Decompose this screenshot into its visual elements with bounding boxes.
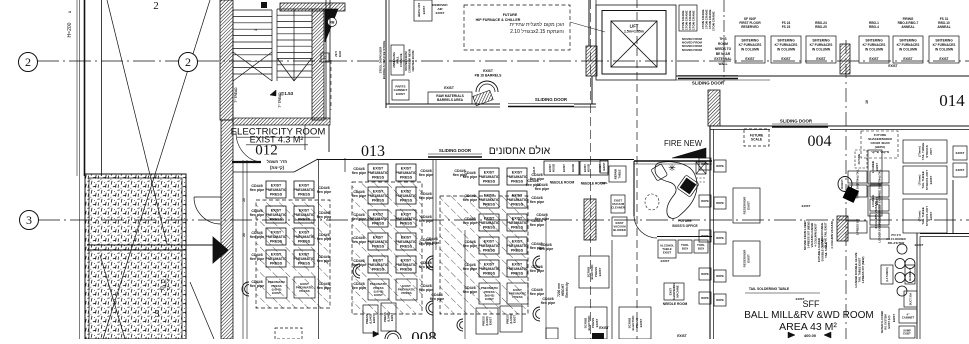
svg-text:ROPE: ROPE [716,201,724,205]
svg-text:004: 004 [808,133,832,150]
svg-text:flex pipe: flex pipe [530,177,545,181]
svg-text:SLIDING DOOR: SLIDING DOOR [439,148,472,153]
svg-text:EXIST: EXIST [373,189,384,193]
svg-text:(L0 TANKS): (L0 TANKS) [885,267,889,281]
svg-text:EXIST: EXIST [299,183,310,187]
svg-text:EXIST: EXIST [484,170,495,174]
svg-text:EXIST: EXIST [271,208,282,212]
svg-text:PNEUMATIC: PNEUMATIC [395,263,417,267]
svg-text:flex pipe: flex pipe [352,217,367,221]
svg-text:1TON CRANE: 1TON CRANE [692,11,696,30]
svg-text:PRESS: PRESS [483,202,496,206]
svg-text:PRESS: PRESS [511,202,524,206]
svg-text:WALL: WALL [395,56,399,64]
svg-text:flex pipe: flex pipe [250,188,265,192]
svg-text:ROPE: ROPE [716,274,724,278]
svg-text:flex pipe: flex pipe [317,286,332,290]
svg-text:EXIST: EXIST [396,92,405,96]
svg-text:EXIST: EXIST [892,314,896,322]
svg-text:EXIST: EXIST [373,258,384,262]
svg-text:IN COLUMN: IN COLUMN [865,48,884,52]
svg-text:PNEUMATIC: PNEUMATIC [478,221,500,225]
svg-text:EXIST (L0): EXIST (L0) [887,315,891,328]
svg-text:ROBOT: ROBOT [840,179,844,189]
svg-text:ANNEALING: ANNEALING [392,52,396,68]
svg-text:אולם אחסונים: אולם אחסונים [489,145,551,157]
svg-text:SUCT 30A: SUCT 30A [908,293,912,306]
svg-text:PNEUMATIC: PNEUMATIC [265,257,287,261]
svg-text:EXIST: EXIST [869,57,878,61]
svg-text:WATER FLOODED: WATER FLOODED [880,311,884,334]
svg-text:PRESS: PRESS [511,248,524,252]
svg-text:EXIST: EXIST [271,183,282,187]
svg-text:RBO-25: RBO-25 [815,25,827,29]
svg-text:200T: 200T [929,148,933,155]
svg-text:EXIST: EXIST [599,326,609,330]
svg-text:BARRELS AREA: BARRELS AREA [437,98,464,102]
svg-text:PRESS: PRESS [400,198,413,202]
svg-text:PNEUMATIC: PNEUMATIC [478,244,500,248]
svg-text:LIFT: LIFT [630,24,639,29]
svg-text:NEEDLE ROOM: NEEDLE ROOM [581,182,606,186]
svg-text:ANNEAL: ANNEAL [937,25,950,29]
svg-text:CENTER ROOM: CENTER ROOM [411,50,415,72]
svg-text:PRESS: PRESS [298,239,311,243]
svg-text:PRESS: PRESS [400,221,413,225]
svg-text:✳: ✳ [668,163,676,173]
svg-text:NEEDS TO: NEEDS TO [715,47,732,51]
svg-text:PNEUMATIC: PNEUMATIC [395,240,417,244]
svg-text:2: 2 [25,55,31,69]
svg-text:BOX: BOX [682,246,688,250]
svg-text:BALL MILL&RV &WD ROOM: BALL MILL&RV &WD ROOM [744,310,873,321]
svg-text:BLOWER: BLOWER [613,228,625,232]
svg-text:HOOD: HOOD [587,164,591,172]
svg-text:EXIST: EXIST [929,175,933,184]
svg-text:flex pipe: flex pipe [352,286,367,290]
svg-text:EXIST: EXIST [401,189,412,193]
svg-text:7" TREAD: 7" TREAD [234,87,238,103]
svg-text:הוכן מקום למעלית עתידית: הוכן מקום למעלית עתידית [510,21,565,28]
svg-text:EXIST: EXIST [485,297,494,301]
svg-text:EXIST: EXIST [390,313,394,321]
svg-text:4 COLUMN VACUUM: 4 COLUMN VACUUM [830,221,834,249]
svg-text:ROPE: ROPE [716,236,724,240]
svg-text:SFF: SFF [803,299,821,309]
svg-text:PRESS: PRESS [270,261,283,265]
svg-text:BOX: BOX [698,246,704,250]
svg-text:SLIDING DOOR: SLIDING DOOR [780,119,813,124]
svg-text:SINTERING: SINTERING [935,38,953,42]
svg-text:flex pipe: flex pipe [541,301,556,305]
svg-text:Electricity: Electricity [565,282,569,297]
svg-text:EXIST: EXIST [915,243,924,247]
svg-text:FS 23: FS 23 [782,25,791,29]
svg-text:PRESS: PRESS [372,175,385,179]
svg-text:FUTURE: FUTURE [678,219,692,223]
svg-text:PNEUMATIC: PNEUMATIC [367,171,389,175]
svg-text:K7 FURNACES: K7 FURNACES [863,43,886,47]
svg-text:flex pipe: flex pipe [463,221,478,225]
svg-text:PNEUMATIC: PNEUMATIC [265,235,287,239]
svg-text:EXIST: EXIST [669,287,673,295]
svg-text:בגודל 2.10x2.15 והעתקת: בגודל 2.10x2.15 והעתקת [510,28,564,35]
svg-text:EXIST: EXIST [484,216,495,220]
svg-text:LOADER EXIST: LOADER EXIST [878,204,882,225]
svg-text:HEPA U15: HEPA U15 [417,3,421,18]
svg-text:PNEUMATIC: PNEUMATIC [367,263,389,267]
svg-text:FUTURE: FUTURE [857,153,861,164]
svg-text:SINTERING: SINTERING [777,38,795,42]
svg-text:PRESS: PRESS [372,267,385,271]
svg-text:EXIST: EXIST [512,262,523,266]
svg-text:EXIST: EXIST [595,318,599,327]
svg-text:EXIST: EXIST [401,258,412,262]
svg-text:K7 FURNACES: K7 FURNACES [933,43,956,47]
svg-text:EXIST: EXIST [483,69,494,73]
svg-text:PRESS: PRESS [400,175,413,179]
svg-text:EXIST: EXIST [512,239,523,243]
svg-text:flex pipe: flex pipe [463,244,478,248]
svg-text:BE NEAR: BE NEAR [716,52,731,56]
svg-text:1: 1 [254,29,258,31]
svg-text:20: 20 [242,233,246,237]
svg-text:BOSS'S OFFICE: BOSS'S OFFICE [672,224,698,228]
svg-text:EXTERNAL: EXTERNAL [714,57,731,61]
svg-text:EXIST: EXIST [583,164,587,172]
svg-text:@1.53: @1.53 [280,91,294,96]
svg-text:(קיימת): (קיימת) [270,165,285,170]
svg-text:2: 2 [153,0,159,12]
svg-text:IN COLUMN: IN COLUMN [935,48,954,52]
svg-text:WALL: WALL [718,62,727,66]
svg-text:SLIDING DOOR: SLIDING DOOR [535,97,568,102]
svg-text:3: 3 [26,213,32,227]
svg-text:EXIST: EXIST [781,57,790,61]
svg-text:PRESS: PRESS [511,225,524,229]
svg-text:012: 012 [255,143,278,159]
svg-text:PNEUMATIC: PNEUMATIC [506,175,528,179]
svg-text:IN COLUMN: IN COLUMN [899,48,918,52]
svg-text:PNEUMATIC: PNEUMATIC [367,194,389,198]
svg-text:EXIST: EXIST [372,315,376,323]
svg-text:EXIST: EXIST [875,197,879,205]
svg-text:EXIST: EXIST [373,235,384,239]
svg-text:NEEDLE ROOM: NEEDLE ROOM [663,302,688,306]
svg-text:EXIST: EXIST [956,151,965,155]
svg-text:EXIST: EXIST [929,211,933,220]
svg-text:EXIST: EXIST [484,239,495,243]
svg-text:EXIST: EXIST [903,57,912,61]
svg-text:PRESS: PRESS [372,244,385,248]
svg-text:ROPE: ROPE [701,272,709,276]
svg-text:1.5m×1.55m: 1.5m×1.55m [624,30,644,34]
svg-text:THIS: THIS [719,37,726,41]
svg-text:TAIL SOLDERING TABLE: TAIL SOLDERING TABLE [749,287,790,291]
svg-text:BARRELS NEAR BE STORE: BARRELS NEAR BE STORE [382,41,386,80]
svg-text:CABINET: CABINET [902,316,915,320]
svg-text:TAIL TABLE: TAIL TABLE [824,242,828,258]
svg-text:flex pipe: flex pipe [419,173,434,177]
svg-text:EXIST: EXIST [271,252,282,256]
svg-text:EXIST: EXIST [816,57,825,61]
svg-text:EXIST: EXIST [513,315,517,323]
svg-text:לובי: לובי [160,278,169,285]
svg-text:PNEUMATIC: PNEUMATIC [293,235,315,239]
svg-text:EXIST: EXIST [373,212,384,216]
svg-text:SLIDING DOOR: SLIDING DOOR [692,81,725,86]
svg-text:flex pipe: flex pipe [317,259,332,263]
svg-text:FURNACE: FURNACE [399,53,403,66]
svg-text:K7 FURNACES: K7 FURNACES [897,43,920,47]
svg-text:EXIST: EXIST [602,162,606,170]
svg-text:EXIST: EXIST [661,259,670,263]
svg-text:EXIST: EXIST [562,164,566,172]
svg-text:1-PRESS 30T (NEW): 1-PRESS 30T (NEW) [861,257,865,284]
svg-text:EXIST: EXIST [746,201,750,210]
svg-text:PNEUMATIC: PNEUMATIC [506,244,528,248]
svg-text:ROPE: ROPE [701,162,709,166]
svg-text:EXIST: EXIST [875,163,879,171]
svg-text:EXIST: EXIST [436,11,445,15]
svg-text:EXIST: EXIST [373,166,384,170]
svg-text:קיים: קיים [160,286,170,292]
svg-text:ROPE: ROPE [701,234,709,238]
svg-text:flex pipe: flex pipe [352,240,367,244]
svg-text:SINTERING: SINTERING [899,38,917,42]
svg-text:חדר חשמל: חדר חשמל [267,159,288,164]
svg-text:EXIST: EXIST [271,230,282,234]
svg-text:PNEUMATIC: PNEUMATIC [265,213,287,217]
svg-text:SINTERING: SINTERING [865,38,883,42]
svg-text:flex pipe: flex pipe [352,171,367,175]
svg-text:EXIST: EXIST [939,57,948,61]
svg-text:FIRE NEW: FIRE NEW [664,139,703,148]
svg-text:flex pipe: flex pipe [535,187,550,191]
svg-text:EXIST: EXIST [512,216,523,220]
svg-text:RESERVED: RESERVED [741,25,759,29]
svg-text:TABLE: TABLE [617,169,621,178]
svg-text:EXIST: EXIST [956,168,965,172]
svg-text:HOOD: HOOD [571,164,575,172]
svg-text:flex pipe: flex pipe [250,213,265,217]
svg-text:flex pipe: flex pipe [317,190,332,194]
svg-text:flex pipe: flex pipe [530,223,545,227]
svg-text:EXIST: EXIST [663,251,672,255]
svg-text:PRESS: PRESS [483,225,496,229]
svg-text:EXIST: EXIST [548,164,552,172]
svg-text:flex pipe: flex pipe [419,196,434,200]
svg-text:HOOD: HOOD [552,164,556,172]
svg-text:PRESS: PRESS [483,179,496,183]
svg-text:PRESS: PRESS [270,217,283,221]
svg-text:PRESS: PRESS [270,239,283,243]
svg-text:IN COLUMN: IN COLUMN [741,48,760,52]
svg-text:PNEUMATIC: PNEUMATIC [478,175,500,179]
svg-text:SCALE: SCALE [751,138,763,142]
svg-text:flex pipe: flex pipe [530,292,545,296]
svg-text:PNEUMATIC: PNEUMATIC [293,213,315,217]
svg-text:EXIST: EXIST [639,318,643,327]
svg-text:IN COLUMN: IN COLUMN [812,48,831,52]
svg-text:PRESS: PRESS [483,271,496,275]
svg-text:IN COLUMN: IN COLUMN [777,48,796,52]
svg-text:16: 16 [865,100,869,104]
svg-text:PNEUMATIC: PNEUMATIC [506,267,528,271]
svg-text:EXIST: EXIST [401,212,412,216]
svg-text:ROPE: ROPE [716,164,724,168]
svg-text:flex pipe: flex pipe [463,198,478,202]
svg-text:SINTERING: SINTERING [741,38,759,42]
svg-text:EXIST: EXIST [903,332,911,336]
svg-text:014: 014 [939,91,965,110]
svg-text:flex pipe: flex pipe [250,235,265,239]
svg-text:flex pipe: flex pipe [317,237,332,241]
svg-text:BARRELS: BARRELS [908,268,912,281]
svg-text:flex pipe: flex pipe [463,290,478,294]
svg-text:EXIST: EXIST [796,297,805,301]
svg-text:ANNEAL: ANNEAL [901,25,914,29]
svg-text:PB 16 BARRELS: PB 16 BARRELS [475,74,502,78]
svg-text:EXIST: EXIST [299,252,310,256]
svg-text:400.00: 400.00 [804,333,817,338]
svg-text:EXIST: EXIST [444,86,455,90]
svg-text:PNEUMATIC: PNEUMATIC [367,240,389,244]
svg-text:EXIST: EXIST [484,193,495,197]
svg-text:CLEANER: CLEANER [611,205,625,209]
svg-text:ROPE: ROPE [701,296,709,300]
svg-text:PRESS: PRESS [511,179,524,183]
svg-text:flex pipe: flex pipe [530,200,545,204]
svg-text:flex pipe: flex pipe [535,217,550,221]
svg-text:EXIST: EXIST [598,164,602,172]
svg-text:ROPE: ROPE [716,298,724,302]
svg-text:EXIST: EXIST [401,235,412,239]
svg-text:FUTURE: FUTURE [503,13,518,17]
svg-text:EXIST: EXIST [374,293,383,297]
svg-text:flex pipe: flex pipe [250,284,265,288]
svg-text:EXIST: EXIST [489,317,493,325]
svg-text:flex pipe: flex pipe [419,219,434,223]
svg-text:flex pipe: flex pipe [425,241,440,245]
svg-text:EXIST: EXIST [802,204,811,208]
svg-text:PNEUMATIC: PNEUMATIC [395,171,417,175]
svg-text:PNEUMATIC: PNEUMATIC [478,267,500,271]
svg-text:1TON CRANE: 1TON CRANE [712,12,716,31]
svg-text:PNEUMATIC: PNEUMATIC [478,198,500,202]
svg-text:RO SYSTEM: RO SYSTEM [884,314,888,329]
svg-text:K7 FURNACES: K7 FURNACES [810,43,833,47]
svg-text:EXIST: EXIST [299,230,310,234]
svg-text:flex pipe: flex pipe [317,215,332,219]
svg-text:PRESS: PRESS [298,261,311,265]
svg-text:K7 FURNACES: K7 FURNACES [739,43,762,47]
svg-text:PRESS: PRESS [372,198,385,202]
svg-text:PNEUMATIC: PNEUMATIC [506,198,528,202]
svg-text:PNEUMATIC: PNEUMATIC [293,257,315,261]
svg-text:C: C [324,55,327,60]
svg-text:PRESS: PRESS [511,271,524,275]
svg-text:H=200: H=200 [67,22,73,37]
svg-text:מיקסר שייקר: מיקסר שייקר [871,150,889,154]
svg-text:PRESS: PRESS [372,221,385,225]
svg-text:K7 FURNACES: K7 FURNACES [775,43,798,47]
svg-text:PNEUMATIC: PNEUMATIC [293,188,315,192]
svg-text:EXIST: EXIST [512,193,523,197]
svg-text:3: 3 [155,309,160,320]
svg-text:PNEUMATIC: PNEUMATIC [367,217,389,221]
svg-text:PRESS: PRESS [400,267,413,271]
svg-text:(470Hz) TAIL: (470Hz) TAIL [855,169,859,185]
svg-text:PRESS: PRESS [400,244,413,248]
svg-text:(HEPA): (HEPA) [875,145,885,149]
svg-text:PRESS: PRESS [483,248,496,252]
svg-text:flex pipe: flex pipe [250,257,265,261]
svg-text:PRESS: PRESS [298,192,311,196]
svg-text:SINTERING: SINTERING [812,38,830,42]
svg-text:SHARPENING: SHARPENING [672,283,676,300]
svg-text:flex pipe: flex pipe [352,194,367,198]
svg-text:PNEUMATIC: PNEUMATIC [395,194,417,198]
svg-text:20: 20 [242,198,246,202]
svg-text:EXIST: EXIST [746,254,750,263]
svg-text:EXIST: EXIST [299,208,310,212]
svg-text:flex pipe: flex pipe [430,297,445,301]
svg-text:2: 2 [185,55,191,69]
svg-text:EXIST: EXIST [598,267,602,276]
svg-text:013: 013 [361,143,385,160]
svg-text:PRESS: PRESS [298,217,311,221]
svg-text:PRESS: PRESS [270,192,283,196]
svg-text:EXIST: EXIST [888,64,897,68]
svg-text:EXIST: EXIST [422,5,426,14]
svg-text:EXIST: EXIST [484,262,495,266]
svg-text:RBO-4: RBO-4 [869,25,879,29]
svg-text:PNEUMATIC: PNEUMATIC [265,188,287,192]
svg-text:PRESS: PRESS [512,295,522,299]
svg-text:NEEDLE ROOM: NEEDLE ROOM [550,181,575,185]
svg-text:EXIST: EXIST [745,57,754,61]
svg-text:ROPE: ROPE [701,199,709,203]
svg-text:EXIST: EXIST [401,166,412,170]
svg-text:AREA 43 M²: AREA 43 M² [779,321,837,333]
svg-text:PRESS: PRESS [299,289,309,293]
svg-text:PRESS: PRESS [401,291,411,295]
svg-text:PNEUMATIC: PNEUMATIC [506,221,528,225]
svg-text:flex pipe: flex pipe [419,288,434,292]
svg-text:MOVED FROM: MOVED FROM [682,48,703,52]
svg-text:RAD: RAD [338,50,342,57]
svg-text:EXIST: EXIST [272,291,281,295]
svg-text:ROOM: ROOM [718,42,728,46]
svg-text:MACHINE: MACHINE [675,285,679,297]
svg-text:EXIST: EXIST [512,170,523,174]
svg-text:flex pipe: flex pipe [463,267,478,271]
svg-text:EXIST: EXIST [677,334,687,338]
svg-text:flex pipe: flex pipe [539,247,554,251]
svg-text:PNEUMATIC: PNEUMATIC [395,217,417,221]
svg-text:flex pipe: flex pipe [463,175,478,179]
svg-text:1-PRESS 30T: 1-PRESS 30T [855,218,859,235]
